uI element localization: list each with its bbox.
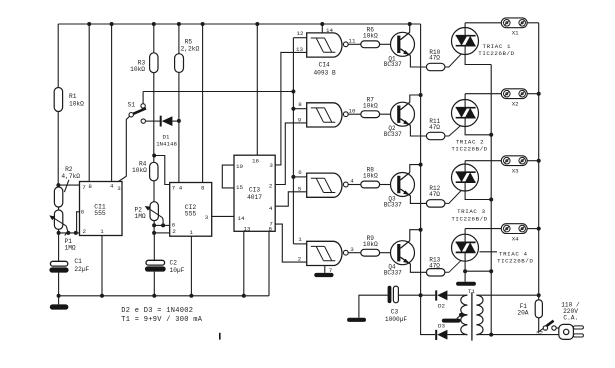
svg-text:R5: R5 — [185, 39, 193, 46]
junction triac4 MT1 — [463, 269, 467, 273]
triac TRIAC1 TIC226B/D — [452, 28, 479, 55]
wire rail to R1 — [57, 24, 59, 88]
svg-text:8: 8 — [201, 184, 205, 191]
capacitor C2 — [145, 260, 166, 271]
junction on VCC rail x=89.2 — [87, 22, 91, 26]
plug CA — [559, 324, 584, 339]
wire P1 bottom lead — [58, 229, 60, 233]
wire rail to R5 — [178, 24, 180, 54]
junction common rail stage2 — [489, 133, 493, 137]
label notes D2 D3 — [121, 307, 193, 315]
gate1 input pin labels — [296, 30, 304, 53]
transistor Q3 — [391, 173, 415, 197]
transformer T1 primary — [476, 295, 483, 334]
ground symbol C3 — [347, 318, 366, 322]
svg-text:4: 4 — [110, 183, 114, 190]
wire node to CI1 pin7 — [58, 184, 79, 186]
ground symbol triac4 — [456, 271, 476, 286]
svg-text:10kΩ: 10kΩ — [363, 173, 378, 180]
junction +V C3 node — [419, 293, 423, 297]
transistor Q4 — [391, 241, 415, 265]
wire CI2 pin8 to rail — [202, 24, 204, 183]
svg-text:1N4148: 1N4148 — [156, 141, 177, 148]
gate3 output pin label — [350, 178, 354, 185]
svg-text:6: 6 — [81, 209, 85, 216]
op-amp CI3 4017 box — [234, 155, 275, 231]
svg-text:CI3: CI3 — [249, 187, 260, 194]
svg-text:10µF: 10µF — [170, 267, 185, 274]
svg-text:X2: X2 — [512, 101, 519, 108]
junction gnd C2 — [152, 294, 156, 298]
wire R8 to Q3 base — [380, 184, 391, 186]
wire C2 to gnd — [153, 272, 155, 296]
label R6 value — [363, 27, 378, 40]
svg-text:10kΩ: 10kΩ — [363, 241, 378, 248]
label R1 value — [69, 93, 84, 108]
svg-text:20A: 20A — [517, 310, 528, 317]
label T1 — [468, 288, 475, 295]
label CI1 555 — [94, 203, 106, 217]
resistor R5 — [175, 54, 184, 73]
wire ground bus — [59, 295, 269, 297]
svg-text:C3: C3 — [391, 309, 399, 316]
svg-text:S1: S1 — [128, 102, 136, 109]
wire Q2 emitter to R11 — [410, 125, 426, 136]
svg-text:5: 5 — [298, 185, 302, 192]
capacitor C3 — [388, 286, 399, 303]
label R2 value — [61, 166, 80, 180]
svg-text:1: 1 — [190, 229, 194, 236]
svg-text:D2: D2 — [438, 303, 445, 310]
wire Q1 emitter to R10 — [410, 56, 426, 68]
wire CI3 pin16 to rail — [256, 24, 258, 155]
junction gnd CI2 pin1 — [189, 294, 193, 298]
junction P2 wiper — [161, 223, 165, 227]
svg-text:1MΩ: 1MΩ — [135, 213, 146, 220]
wire S2 to plug — [556, 327, 559, 329]
resistor R8 — [361, 181, 380, 188]
wire P2 wiper down — [162, 218, 165, 226]
label R11 value — [429, 118, 441, 131]
wire +V rail vertical — [420, 24, 422, 295]
wire bus up to CI3 pin8 — [268, 231, 270, 295]
gate2 output pin label — [349, 107, 356, 114]
wire triac3 MT2 to lamp — [464, 161, 466, 173]
svg-text:555: 555 — [94, 210, 106, 217]
svg-text:BC337: BC337 — [384, 270, 402, 277]
label CI3 4017 — [247, 187, 262, 201]
lamp X2 — [501, 89, 527, 99]
label P1 value — [65, 238, 76, 252]
junction lamp rail X4 — [537, 227, 541, 231]
label D2 — [438, 303, 445, 310]
label C2 value — [170, 260, 185, 275]
wire lamp X1 right — [527, 22, 539, 24]
CI2 pin labels — [172, 184, 209, 236]
junction gate3 pin6 — [291, 175, 295, 179]
wire lamp rail — [538, 23, 540, 300]
svg-text:7: 7 — [172, 184, 176, 191]
label TRIAC 3 — [451, 208, 487, 223]
junction on VCC rail x=322.3 — [320, 22, 324, 26]
wire CI3 pin10-pin15 bracket — [222, 165, 234, 188]
label TRIAC 2 — [451, 139, 487, 153]
svg-text:D3: D3 — [438, 323, 445, 330]
svg-text:7: 7 — [329, 267, 333, 274]
svg-text:10: 10 — [236, 163, 243, 170]
svg-text:TIC226B/D: TIC226B/D — [497, 258, 533, 265]
gate3 input pin labels — [298, 169, 303, 192]
label TRIAC 4 — [497, 250, 533, 264]
label CI4 pin7 — [329, 267, 333, 274]
junction fuse top — [537, 293, 541, 297]
wire C3 to rail — [398, 294, 420, 296]
wire lamp X4 right — [527, 228, 539, 230]
wire triac common rail — [490, 65, 492, 335]
svg-text:2: 2 — [172, 228, 176, 235]
wire R2 to P1 — [58, 207, 60, 210]
potentiometer P2 — [145, 202, 163, 221]
label R10 value — [429, 49, 441, 62]
diode D2 — [435, 290, 447, 300]
switch S2 — [543, 321, 556, 330]
svg-text:D2 e D3 = 1N4002: D2 e D3 = 1N4002 — [121, 307, 193, 315]
label R9 value — [363, 235, 378, 248]
label CI4 pin14 — [326, 27, 333, 34]
label R12 value — [429, 185, 441, 198]
ground symbol CI4 pin7 — [314, 266, 333, 278]
wire rail to D2 — [421, 294, 436, 296]
svg-text:3: 3 — [269, 162, 273, 169]
CI3 pin labels — [236, 158, 273, 233]
leader P1 label — [65, 232, 68, 236]
svg-text:47Ω: 47Ω — [429, 124, 440, 131]
CI1 pin labels — [81, 183, 121, 235]
wire P1 wiper to bottom node — [66, 226, 68, 233]
wire R9 to Q4 base — [380, 252, 391, 254]
label R13 value — [429, 257, 441, 270]
svg-text:4: 4 — [350, 178, 354, 185]
svg-text:TIC226B/D: TIC226B/D — [478, 50, 514, 57]
svg-text:D1: D1 — [163, 134, 170, 141]
leader R2 label — [64, 180, 69, 192]
svg-text:1000µF: 1000µF — [385, 316, 408, 323]
svg-text:1: 1 — [298, 236, 302, 243]
svg-text:4017: 4017 — [247, 194, 262, 201]
junction on VCC rail x=257.3 — [255, 22, 259, 26]
svg-text:C2: C2 — [170, 260, 178, 267]
svg-text:2: 2 — [83, 228, 87, 235]
wire node to CI2 pin7 — [154, 156, 170, 185]
wire R12 to triac gate — [445, 185, 467, 204]
leader TRIAC 4 — [480, 251, 498, 253]
junction on VCC rail x=111.6 — [110, 22, 114, 26]
svg-text:15: 15 — [236, 184, 243, 191]
label R5 value — [181, 39, 200, 53]
wire Q3 emitter to R12 — [410, 196, 426, 204]
wire T1 center tap — [461, 314, 468, 316]
mark figure tick — [219, 333, 221, 340]
gate1 output pin label — [349, 38, 356, 45]
junction pin2 node — [152, 231, 156, 235]
wire node to C2 — [153, 233, 155, 260]
gate4 input pin labels — [298, 236, 303, 262]
label TRIAC 1 — [478, 43, 514, 57]
svg-text:1: 1 — [100, 228, 104, 235]
wire S1 to gates line — [142, 92, 144, 104]
wire R11 to triac gate — [445, 120, 467, 136]
svg-text:S2: S2 — [536, 330, 543, 337]
svg-text:X1: X1 — [512, 30, 519, 37]
wire fuse to S2 — [539, 318, 544, 332]
resistor R12 — [426, 200, 445, 207]
label S1 — [128, 102, 136, 109]
wire rail to R3 — [153, 24, 155, 53]
wire triac3 MT1 — [465, 182, 491, 199]
wire Q4 emitter to R13 — [410, 264, 426, 272]
label Q1 — [384, 55, 402, 68]
label C1 value — [74, 258, 89, 273]
svg-text:TIC226B/D: TIC226B/D — [451, 145, 487, 152]
junction on VCC rail x=178.9 — [177, 22, 181, 26]
svg-text:10kΩ: 10kΩ — [363, 33, 378, 40]
svg-text:13: 13 — [296, 46, 303, 53]
wire triac1 MT1 — [465, 46, 491, 65]
svg-text:4093 B: 4093 B — [313, 69, 336, 76]
wire CI3 pin7 to gate4 pin2 — [275, 224, 307, 262]
svg-text:2: 2 — [298, 256, 302, 263]
svg-text:3: 3 — [117, 185, 121, 192]
junction on VCC rail x=409.7 — [408, 22, 412, 26]
wire triac4 MT1 — [465, 252, 491, 271]
wire R5 to CI2 pin4 — [178, 73, 180, 183]
svg-text:10kΩ: 10kΩ — [130, 66, 145, 73]
junction gnd CI3 pin13 — [242, 294, 246, 298]
wire triac2 MT2 to lamp — [464, 94, 466, 108]
wire P2 bottom to pin6 — [154, 221, 170, 226]
nand gate CI4-d — [307, 241, 348, 265]
wire R4 to P2 — [153, 181, 155, 202]
nand gate CI4-b — [307, 103, 348, 127]
junction on VCC rail x=202.6 — [201, 22, 205, 26]
junction lamp rail X2 — [537, 92, 541, 96]
wire CI1 pin3 to S1 pivot — [119, 115, 131, 182]
svg-text:2,2kΩ: 2,2kΩ — [181, 46, 200, 53]
svg-text:13: 13 — [244, 225, 251, 232]
wire lamp X2 left — [465, 93, 501, 95]
junction wiper bottom — [66, 231, 70, 235]
switch S1 — [129, 104, 146, 124]
svg-text:8: 8 — [88, 183, 92, 190]
wire triac1 MT2 to lamp — [464, 23, 466, 36]
fuse F1 — [535, 300, 542, 318]
label R3 value — [130, 60, 145, 74]
wire C3 left — [359, 295, 388, 318]
diode D3 — [435, 330, 447, 340]
svg-text:BC337: BC337 — [384, 131, 402, 138]
triac TRIAC4 TIC226B/D — [452, 234, 479, 261]
junction R1/R2/pin7 node — [56, 183, 60, 187]
svg-text:10kΩ: 10kΩ — [363, 102, 378, 109]
label Q2 — [384, 125, 402, 138]
wire Q2 collector — [410, 95, 421, 102]
svg-text:14: 14 — [326, 27, 333, 34]
resistor R10 — [426, 63, 445, 70]
label X4 — [512, 235, 519, 242]
svg-text:4,7kΩ: 4,7kΩ — [61, 173, 80, 180]
label R4 value — [132, 161, 147, 174]
junction P1 bottom — [57, 231, 61, 235]
svg-text:R1: R1 — [69, 93, 77, 100]
nand gate CI4-a — [307, 33, 348, 57]
junction R3/R4/CI2pin7 — [152, 154, 156, 158]
svg-text:2: 2 — [269, 182, 273, 189]
svg-text:555: 555 — [185, 211, 197, 218]
label C3 value — [385, 309, 408, 324]
label R7 value — [363, 96, 378, 109]
wire to gate3 pin6 — [293, 176, 306, 178]
label D1 — [156, 134, 177, 148]
wire D1 to R5 node — [172, 120, 179, 122]
junction pin6 join — [74, 231, 78, 235]
wire R1 to node7 — [57, 112, 59, 186]
diode D1 — [160, 116, 173, 127]
wire gates common vertical — [292, 38, 294, 244]
wire CI3 pin3 to gate1 pin13 — [275, 52, 307, 164]
wire R7 to Q2 base — [380, 113, 391, 115]
svg-text:3: 3 — [205, 214, 209, 221]
label F1 value — [517, 303, 528, 317]
resistor R1 — [54, 88, 62, 112]
svg-text:8: 8 — [298, 101, 302, 108]
wire CI1 pin8 to rail — [88, 24, 90, 182]
wire node to C1 — [58, 233, 60, 261]
resistor R3 — [150, 53, 158, 73]
wire S1 line to gates — [143, 91, 293, 93]
ground symbol main — [50, 296, 69, 310]
resistor R2 — [54, 187, 62, 207]
lamp X3 — [501, 156, 527, 166]
wire gate4 output — [348, 252, 361, 254]
svg-text:C.A.: C.A. — [563, 315, 578, 322]
wire CI3 pin2 to gate2 pin9 — [275, 123, 307, 185]
label notes T1 — [121, 316, 203, 324]
junction gate2 pin8 — [291, 107, 295, 111]
svg-text:4: 4 — [179, 184, 183, 191]
svg-text:22µF: 22µF — [74, 266, 89, 273]
wire R6 to Q1 base — [380, 43, 391, 45]
wire lamp X2 right — [527, 93, 539, 95]
junction neutral common rail — [489, 333, 493, 337]
svg-text:8: 8 — [269, 226, 273, 233]
wire VCC top rail — [58, 23, 420, 25]
svg-text:10kΩ: 10kΩ — [69, 101, 84, 108]
svg-text:C1: C1 — [74, 258, 82, 265]
resistor R13 — [426, 269, 445, 276]
svg-text:X3: X3 — [512, 168, 519, 175]
wire gate2 output — [348, 113, 361, 115]
transistor Q2 — [391, 102, 415, 126]
resistor R11 — [426, 132, 445, 139]
svg-text:3: 3 — [350, 246, 354, 253]
triac TRIAC2 TIC226B/D — [452, 100, 479, 127]
junction S1 line — [291, 90, 295, 94]
transformer T1 core — [471, 292, 473, 340]
svg-text:14: 14 — [238, 215, 245, 222]
svg-text:12: 12 — [297, 30, 304, 37]
svg-text:16: 16 — [252, 158, 259, 165]
potentiometer P1 — [49, 210, 66, 229]
wire lamp X3 left — [465, 160, 501, 162]
wire CI1 pin4 to rail — [111, 24, 113, 182]
wire gate1 output — [348, 43, 361, 45]
wire CI3 pin13 to gnd — [243, 231, 245, 295]
junction rail Q2 collector — [419, 93, 423, 97]
svg-text:T1: T1 — [468, 288, 475, 295]
wire CI2 pin1 to gnd — [190, 236, 192, 296]
wire node to R4 — [153, 156, 155, 163]
svg-text:BC337: BC337 — [384, 61, 402, 68]
wire Q4 collector — [410, 230, 421, 241]
junction D1/R5/pin4 — [177, 119, 181, 123]
op-amp CI1 555 box — [80, 182, 123, 236]
label D3 — [438, 323, 445, 330]
svg-text:47Ω: 47Ω — [429, 55, 440, 62]
capacitor C1 — [49, 261, 68, 272]
wire Q3 collector — [410, 165, 421, 173]
wire to gate2 pin8 — [293, 108, 306, 110]
wire primary top to fuse node — [476, 294, 538, 296]
label R8 value — [363, 167, 378, 180]
wire CI2 pin3 to CI3 pin14 — [212, 215, 234, 217]
label S2 — [536, 330, 543, 337]
label Q4 — [384, 264, 402, 277]
gate2 input pin labels — [298, 101, 303, 123]
gate4 output pin label — [350, 246, 354, 253]
wire D2 to secondary top — [447, 294, 467, 296]
svg-text:TRIAC 3: TRIAC 3 — [457, 208, 486, 215]
svg-text:9: 9 — [298, 116, 302, 123]
wire R10 to triac gate — [445, 48, 467, 67]
transistor Q1 — [391, 32, 415, 56]
wire lamp X1 left — [465, 22, 501, 24]
svg-text:1MΩ: 1MΩ — [65, 245, 76, 252]
svg-text:T1 = 9+9V / 300 mA: T1 = 9+9V / 300 mA — [121, 316, 203, 324]
svg-text:11: 11 — [349, 38, 356, 45]
wire gate3 output — [348, 184, 361, 186]
label mains voltage — [561, 301, 580, 321]
label CI2 555 — [185, 204, 197, 217]
wire to gate1 pin12 — [293, 37, 306, 39]
wire primary bottom mains neutral — [476, 334, 559, 336]
label P2 value — [135, 207, 146, 221]
svg-text:10: 10 — [349, 107, 356, 114]
svg-text:TIC226B/D: TIC226B/D — [451, 215, 487, 222]
label X3 — [512, 168, 519, 175]
label Q3 — [384, 196, 402, 209]
wire Q1 collector to rail — [409, 24, 411, 32]
label X1 — [512, 30, 519, 37]
wire C1 to ground bus — [58, 273, 60, 296]
svg-text:CI4: CI4 — [319, 61, 330, 68]
junction rail Q3 collector — [419, 163, 423, 167]
junction rail Q4 collector — [419, 228, 423, 232]
junction common rail stage3 — [489, 198, 493, 202]
wire D3 to secondary bottom — [447, 334, 467, 336]
junction common rail stage4 — [489, 269, 493, 273]
svg-text:4: 4 — [269, 205, 273, 212]
wire CI1 pin1 to gnd — [101, 236, 103, 296]
